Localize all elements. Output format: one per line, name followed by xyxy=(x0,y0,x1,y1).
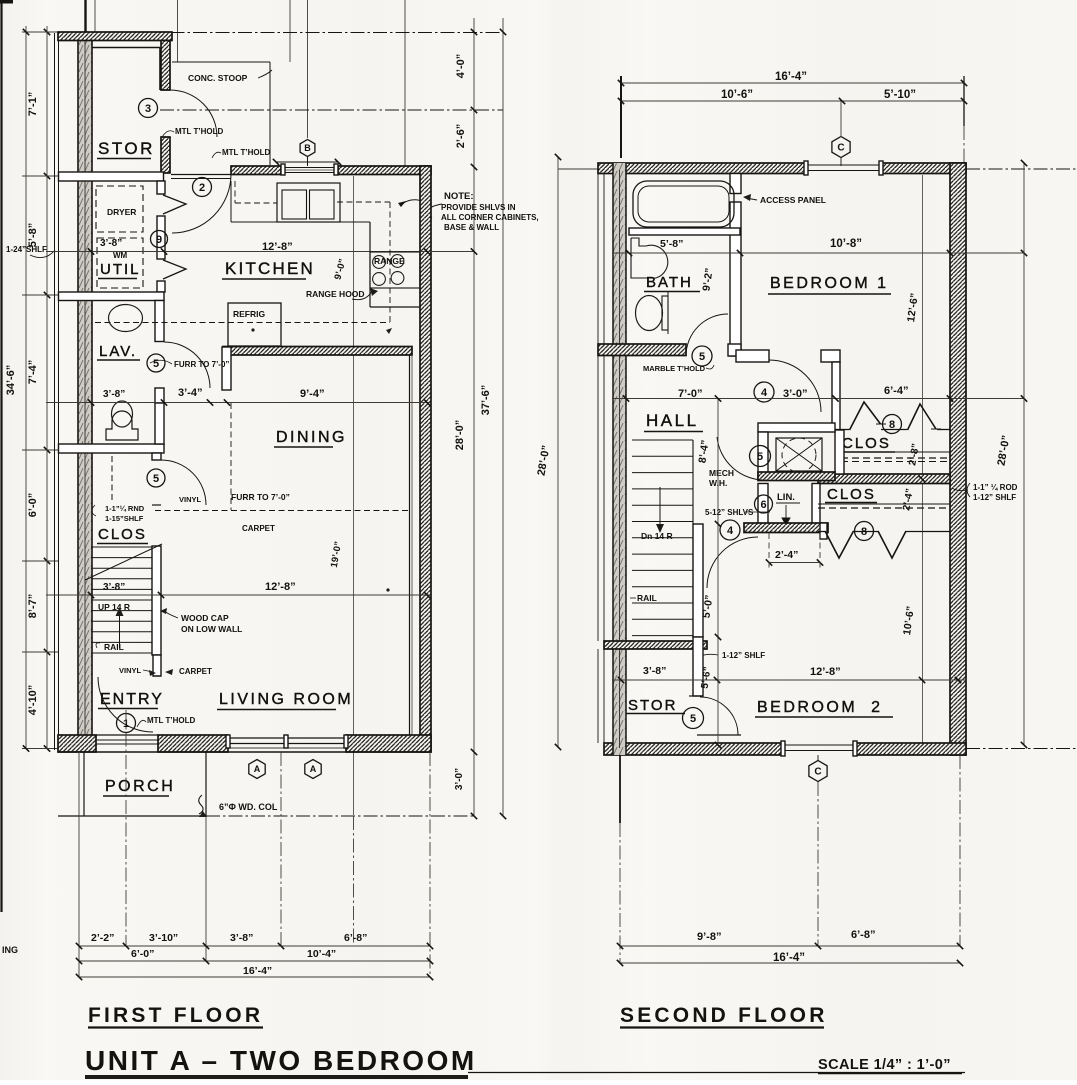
svg-text:4: 4 xyxy=(761,387,768,399)
svg-text:5: 5 xyxy=(153,358,159,370)
svg-text:7’-1”: 7’-1” xyxy=(27,92,39,116)
svg-text:6”Φ WD. COL: 6”Φ WD. COL xyxy=(219,802,278,812)
svg-text:1-15”SHLF: 1-15”SHLF xyxy=(105,514,144,523)
svg-text:HALL: HALL xyxy=(646,411,699,430)
svg-text:2’-2”: 2’-2” xyxy=(91,932,114,944)
svg-text:2’-4”: 2’-4” xyxy=(775,549,798,561)
svg-text:UP 14 R: UP 14 R xyxy=(98,602,130,612)
svg-text:1-12” SHLF: 1-12” SHLF xyxy=(722,651,765,660)
svg-text:12’-8”: 12’-8” xyxy=(810,666,841,678)
svg-text:8: 8 xyxy=(861,526,867,538)
svg-text:4: 4 xyxy=(727,525,734,537)
svg-text:A: A xyxy=(310,764,317,774)
svg-text:5: 5 xyxy=(690,713,696,725)
svg-text:ACCESS PANEL: ACCESS PANEL xyxy=(760,195,826,205)
svg-text:28’-0”: 28’-0” xyxy=(454,420,466,451)
svg-text:3’-8”: 3’-8” xyxy=(103,389,125,400)
svg-text:2’-6”: 2’-6” xyxy=(455,124,467,148)
svg-text:BASE & WALL: BASE & WALL xyxy=(444,223,499,232)
svg-text:5’-8”: 5’-8” xyxy=(27,223,39,247)
svg-text:16’-4”: 16’-4” xyxy=(243,965,272,977)
svg-text:SCALE 1/4” : 1’-0”: SCALE 1/4” : 1’-0” xyxy=(818,1057,951,1073)
svg-text:Dn 14 R: Dn 14 R xyxy=(641,531,673,541)
svg-text:BEDROOM 1: BEDROOM 1 xyxy=(770,275,889,292)
svg-text:6’-0”: 6’-0” xyxy=(27,493,39,517)
svg-text:1-1” ¼ ROD: 1-1” ¼ ROD xyxy=(973,483,1018,492)
svg-text:5: 5 xyxy=(757,451,763,463)
svg-text:BEDROOM 2: BEDROOM 2 xyxy=(757,699,882,716)
svg-text:12’-8”: 12’-8” xyxy=(265,581,296,593)
svg-text:RAIL: RAIL xyxy=(104,642,124,652)
svg-text:DINING: DINING xyxy=(276,429,347,446)
svg-text:DRYER: DRYER xyxy=(107,207,136,217)
svg-text:9’-4”: 9’-4” xyxy=(300,388,324,400)
svg-text:FIRST FLOOR: FIRST FLOOR xyxy=(88,1004,263,1027)
svg-text:STOR: STOR xyxy=(98,139,155,158)
svg-text:LAV.: LAV. xyxy=(99,343,137,360)
svg-text:4’-0”: 4’-0” xyxy=(455,54,467,78)
svg-text:3: 3 xyxy=(145,103,151,115)
svg-text:CLOS: CLOS xyxy=(827,486,876,503)
svg-text:UNIT A – TWO BEDROOM: UNIT A – TWO BEDROOM xyxy=(85,1045,477,1076)
svg-text:5’-10”: 5’-10” xyxy=(884,89,916,101)
svg-text:REFRIG: REFRIG xyxy=(233,309,266,319)
svg-text:3’-8”: 3’-8” xyxy=(103,582,125,593)
svg-text:10’-4”: 10’-4” xyxy=(307,948,336,960)
svg-text:4’-10”: 4’-10” xyxy=(27,685,39,716)
svg-text:5’-8”: 5’-8” xyxy=(660,238,683,250)
svg-text:PORCH: PORCH xyxy=(105,778,175,795)
svg-text:10’-6”: 10’-6” xyxy=(721,89,753,101)
svg-text:FURR TO 7’-0”: FURR TO 7’-0” xyxy=(231,492,290,502)
svg-text:37’-6”: 37’-6” xyxy=(480,385,492,416)
svg-text:MTL T’HOLD: MTL T’HOLD xyxy=(222,148,271,157)
svg-text:MTL T’HOLD: MTL T’HOLD xyxy=(147,716,196,725)
svg-text:RAIL: RAIL xyxy=(637,593,657,603)
svg-text:CLOS: CLOS xyxy=(98,526,147,543)
svg-text:3’-10”: 3’-10” xyxy=(149,932,178,944)
svg-text:2: 2 xyxy=(199,182,205,194)
svg-text:ALL CORNER CABINETS,: ALL CORNER CABINETS, xyxy=(441,213,539,222)
svg-text:FURR TO 7’-0”: FURR TO 7’-0” xyxy=(174,360,229,369)
svg-text:C: C xyxy=(814,767,821,778)
svg-text:VINYL: VINYL xyxy=(119,666,142,675)
svg-text:MECH: MECH xyxy=(709,468,734,478)
svg-text:SECOND FLOOR: SECOND FLOOR xyxy=(620,1004,828,1027)
svg-text:6’-0”: 6’-0” xyxy=(131,948,154,960)
svg-text:LIVING ROOM: LIVING ROOM xyxy=(219,691,353,708)
svg-text:5: 5 xyxy=(699,351,705,363)
svg-text:5: 5 xyxy=(153,473,159,485)
svg-text:1-24”SHLF: 1-24”SHLF xyxy=(6,245,47,254)
svg-text:16’-4”: 16’-4” xyxy=(773,952,805,964)
svg-text:9: 9 xyxy=(156,234,162,246)
svg-text:WOOD CAP: WOOD CAP xyxy=(181,613,229,623)
svg-text:6’-4”: 6’-4” xyxy=(884,385,908,397)
svg-text:1-1”¼ RND: 1-1”¼ RND xyxy=(105,504,145,513)
svg-text:KITCHEN: KITCHEN xyxy=(225,259,315,278)
svg-text:NOTE:: NOTE: xyxy=(444,191,474,202)
svg-text:RANGE: RANGE xyxy=(374,256,405,266)
svg-text:C: C xyxy=(837,143,844,154)
svg-text:8’-7”: 8’-7” xyxy=(27,594,39,618)
svg-text:5-12” SHLVS: 5-12” SHLVS xyxy=(705,508,754,517)
svg-text:10’-8”: 10’-8” xyxy=(830,238,862,250)
svg-text:ON LOW WALL: ON LOW WALL xyxy=(181,624,242,634)
svg-text:UTIL: UTIL xyxy=(100,261,141,278)
svg-text:CONC. STOOP: CONC. STOOP xyxy=(188,73,248,83)
svg-text:34’-6”: 34’-6” xyxy=(5,365,17,396)
svg-text:6’-8”: 6’-8” xyxy=(344,932,367,944)
svg-text:16’-4”: 16’-4” xyxy=(775,71,807,83)
svg-text:B: B xyxy=(304,143,311,153)
svg-text:WM: WM xyxy=(113,251,128,260)
svg-text:9’-8”: 9’-8” xyxy=(697,931,721,943)
svg-text:BATH: BATH xyxy=(646,274,693,291)
svg-text:MARBLE T’HOLD: MARBLE T’HOLD xyxy=(643,364,706,373)
svg-text:LIN.: LIN. xyxy=(777,492,795,503)
svg-text:STOR: STOR xyxy=(628,697,677,714)
svg-text:CARPET: CARPET xyxy=(179,667,212,676)
svg-text:1-12” SHLF: 1-12” SHLF xyxy=(973,493,1016,502)
svg-text:CARPET: CARPET xyxy=(242,524,275,533)
svg-text:VINYL: VINYL xyxy=(179,495,202,504)
svg-text:6: 6 xyxy=(760,499,766,511)
svg-text:ENTRY: ENTRY xyxy=(100,691,164,708)
svg-text:CLOS: CLOS xyxy=(842,435,891,452)
svg-text:3’-4”: 3’-4” xyxy=(178,387,202,399)
svg-text:RANGE HOOD: RANGE HOOD xyxy=(306,289,365,299)
svg-text:7’-4”: 7’-4” xyxy=(27,360,39,384)
svg-text:ING: ING xyxy=(2,945,18,955)
svg-text:8: 8 xyxy=(889,419,895,431)
svg-text:6’-8”: 6’-8” xyxy=(851,929,875,941)
svg-text:MTL T’HOLD: MTL T’HOLD xyxy=(175,127,224,136)
svg-text:3’-0”: 3’-0” xyxy=(454,768,465,790)
svg-text:3’-8”: 3’-8” xyxy=(643,665,666,677)
svg-text:3’-8”: 3’-8” xyxy=(100,238,122,249)
svg-text:A: A xyxy=(254,764,261,774)
svg-text:3’-8”: 3’-8” xyxy=(230,932,253,944)
svg-text:PROVIDE SHLVS IN: PROVIDE SHLVS IN xyxy=(441,203,516,212)
